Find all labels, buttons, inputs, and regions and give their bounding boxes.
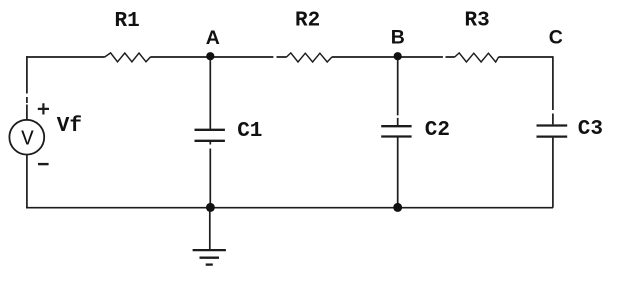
wire: node B to R3 (398, 56, 455, 58)
svg-text:B: B (391, 26, 405, 48)
junction dot: C2 on bottom rail (393, 203, 402, 212)
svg-text:R2: R2 (295, 10, 320, 33)
wire: Vf- down to bottom-left corner (26, 155, 28, 209)
svg-text:V: V (21, 129, 34, 152)
wire: top-left corner to R1 (26, 56, 105, 58)
label Vf (57, 115, 82, 138)
svg-text:Vf: Vf (57, 115, 82, 138)
svg-text:C3: C3 (578, 118, 603, 141)
node A junction dot (206, 52, 214, 60)
label + polarity (38, 103, 49, 114)
voltage source V (Vf) (9, 120, 44, 155)
wire: node B down to C2 (397, 57, 399, 126)
wire: node A down to C1 (209, 57, 211, 130)
svg-text:C: C (549, 26, 563, 48)
wire: R1 to node A (150, 56, 210, 58)
svg-text:R3: R3 (465, 10, 490, 33)
resistor R2 (287, 53, 332, 62)
label R3 (465, 10, 490, 33)
wire: C1 down to bottom rail (209, 142, 211, 208)
svg-text:C2: C2 (425, 119, 450, 142)
label C2 (425, 119, 450, 142)
node B junction dot (394, 52, 402, 60)
label node A (206, 27, 220, 49)
label - polarity (38, 163, 49, 165)
ground (193, 208, 226, 265)
wire: bottom rail (26, 207, 553, 209)
junction dot: C1/ground on bottom rail (206, 203, 215, 212)
resistor R3 (455, 53, 499, 62)
resistor R1 (105, 53, 151, 62)
svg-text:R1: R1 (115, 10, 140, 33)
wire: R3 to node C corner (499, 56, 554, 58)
capacitor C1 (195, 130, 225, 141)
wire: node C down to C3 (552, 56, 554, 124)
label R2 (295, 10, 320, 33)
wire: R2 to node B (332, 56, 398, 58)
capacitor C2 (381, 126, 411, 136)
label R1 (115, 10, 140, 33)
wire: C3 down to bottom-right corner (552, 138, 554, 208)
svg-text:C1: C1 (237, 120, 262, 143)
label C3 (578, 118, 603, 141)
capacitor C3 (537, 126, 568, 137)
wire: Vf+ up to top-left corner (26, 56, 28, 119)
label node C (549, 26, 563, 48)
wire: node A to R2 (210, 56, 286, 58)
wire: C2 down to bottom rail (397, 138, 399, 208)
label C1 (237, 120, 262, 143)
svg-text:A: A (206, 27, 220, 49)
label node B (391, 26, 405, 48)
